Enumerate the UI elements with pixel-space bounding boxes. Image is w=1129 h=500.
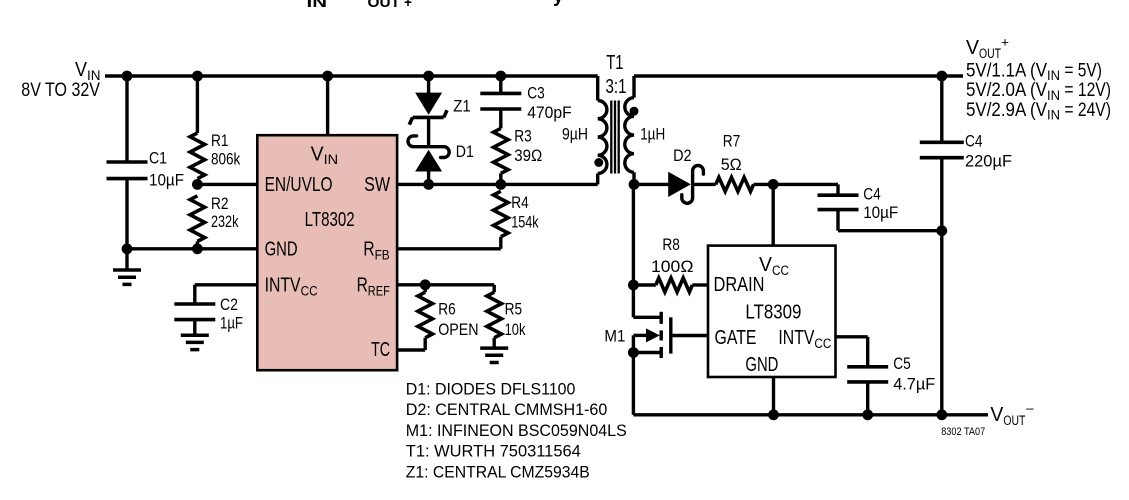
- node dot R3/SW: [495, 179, 506, 190]
- wire D1 bottom stub: [427, 172, 430, 185]
- svg-text:R8: R8: [662, 236, 680, 254]
- wire M1 source: [633, 351, 660, 354]
- svg-text:+: +: [404, 0, 412, 11]
- svg-text:232k: 232k: [211, 213, 239, 231]
- svg-text:D2: CENTRAL CMMSH1-60: D2: CENTRAL CMMSH1-60: [406, 401, 608, 419]
- wire GND rail: [127, 247, 257, 250]
- wire C5 bottom: [866, 382, 869, 415]
- svg-text:154k: 154k: [511, 214, 539, 232]
- node dot VIN pin: [322, 71, 333, 82]
- svg-text:M1: INFINEON BSC059N04LS: M1: INFINEON BSC059N04LS: [406, 422, 627, 440]
- node dot C4out bottom: [936, 409, 947, 420]
- svg-text:VOUT−: VOUT−: [990, 402, 1034, 429]
- svg-text:C4: C4: [863, 186, 881, 204]
- node dot C4out top: [936, 71, 947, 82]
- capacitor C1: [107, 160, 148, 164]
- wire top rail (VIN): [105, 74, 598, 77]
- wire VCC branch: [772, 184, 775, 245]
- ground (C2): [181, 333, 209, 337]
- svg-text:D2: D2: [673, 147, 692, 165]
- wire SW: [397, 183, 598, 186]
- node dot R2 bottom: [192, 243, 203, 254]
- wire R5 top stub: [493, 285, 496, 292]
- svg-text:470pF: 470pF: [527, 104, 572, 122]
- svg-text:SW: SW: [364, 173, 390, 196]
- svg-text:OPEN: OPEN: [438, 321, 478, 339]
- transistor M1 gate bar: [669, 317, 672, 353]
- wire Z1 top stub: [427, 76, 430, 94]
- ground (input): [113, 268, 141, 272]
- svg-text:C3: C3: [527, 85, 545, 103]
- svg-text:TC: TC: [371, 338, 390, 361]
- capacitor C3: [480, 92, 521, 96]
- diode D1 (schottky up): [408, 136, 449, 158]
- zener Z1: [415, 93, 442, 115]
- svg-text:D1: D1: [456, 143, 474, 161]
- op-amp U2 LT8309 box: [708, 246, 836, 377]
- resistor R4: [494, 191, 509, 237]
- wire C3 top stub: [499, 76, 502, 93]
- node dot M1 source: [628, 347, 639, 358]
- op-amp U1 LT8302 box: [257, 135, 397, 370]
- wire C1 top: [125, 76, 128, 162]
- svg-text:3:1: 3:1: [606, 75, 627, 98]
- svg-text:Z1: Z1: [453, 97, 471, 115]
- svg-text:10µF: 10µF: [149, 172, 184, 190]
- capacitor C2: [174, 302, 215, 306]
- wire M1 source down: [632, 335, 635, 414]
- svg-text:IN: IN: [307, 0, 328, 11]
- wire Z1-D1: [427, 117, 430, 148]
- wire D2-R7: [694, 183, 716, 186]
- wire M1 drain: [632, 285, 635, 317]
- wire secondary bottom: [632, 172, 635, 184]
- wire M1 gate: [671, 334, 708, 337]
- wire R8 left stub: [633, 283, 655, 286]
- wire top rail (VOUT): [634, 74, 963, 77]
- svg-text:GATE: GATE: [715, 326, 757, 349]
- svg-text:C2: C2: [220, 296, 238, 314]
- wire R3 bottom: [499, 173, 502, 184]
- title (cropped at top edge): [307, 0, 565, 11]
- wire INTVCC(8309) to C5: [836, 335, 868, 338]
- wire R5 bottom stub: [493, 338, 496, 348]
- wire gnd stub: [125, 249, 128, 270]
- svg-text:R1: R1: [211, 132, 229, 150]
- svg-text:5Ω: 5Ω: [721, 156, 742, 174]
- svg-text:8V TO 32V: 8V TO 32V: [21, 80, 100, 101]
- diode D2 (schottky right): [668, 172, 691, 197]
- wire R2 bottom: [196, 241, 199, 248]
- transformer T1 secondary winding: [625, 98, 634, 173]
- svg-text:GND: GND: [745, 353, 778, 376]
- transformer T1 primary winding: [598, 101, 607, 174]
- svg-text:Z1: CENTRAL CMZ5934B: Z1: CENTRAL CMZ5934B: [406, 464, 590, 482]
- node dot C4b/out: [936, 225, 947, 236]
- wire C4b top stub: [836, 184, 839, 195]
- svg-text:D1: DIODES DFLS1100: D1: DIODES DFLS1100: [406, 380, 576, 398]
- wire INTVCC to C2: [195, 283, 257, 286]
- transformer core: [610, 101, 612, 174]
- wire primary bottom: [596, 174, 599, 185]
- wire RREF: [397, 283, 494, 286]
- svg-text:10k: 10k: [505, 321, 526, 339]
- node dot R6 top: [420, 279, 431, 290]
- wire C4b bottom: [836, 210, 839, 231]
- wire EN/UVLO: [197, 183, 257, 186]
- node dot C5 bottom: [862, 409, 873, 420]
- svg-text:GND: GND: [265, 238, 298, 261]
- transistor M1 channel bars: [660, 312, 663, 324]
- wire C2 gnd stub: [193, 320, 196, 336]
- wire R6 bottom to TC: [424, 338, 427, 350]
- wire VIN pin: [326, 76, 329, 135]
- wire R8 right stub: [692, 283, 708, 286]
- svg-text:T1: T1: [606, 51, 623, 74]
- resistor R5: [487, 292, 502, 338]
- wire secondary to M1: [632, 184, 635, 285]
- wire R4 bottom to RFB: [499, 237, 502, 249]
- svg-text:100Ω: 100Ω: [651, 258, 694, 276]
- node dot R7/VCC: [768, 179, 779, 190]
- svg-text:220µF: 220µF: [965, 153, 1012, 171]
- wire R1 top: [196, 76, 199, 133]
- resistor R2: [190, 196, 205, 242]
- svg-text:LT8309: LT8309: [745, 300, 801, 323]
- resistor R6: [418, 292, 433, 338]
- wire bottom rail (VOUT-): [633, 413, 988, 416]
- svg-text:1µH: 1µH: [640, 126, 665, 144]
- svg-text:OUT: OUT: [368, 0, 401, 11]
- svg-text:10µF: 10µF: [863, 204, 898, 222]
- wire C1 bottom: [125, 179, 128, 249]
- phase dot primary: [594, 158, 603, 167]
- svg-text:R7: R7: [723, 133, 741, 151]
- svg-text:C4: C4: [965, 133, 983, 151]
- resistor R7: [716, 177, 754, 191]
- svg-text:806k: 806k: [211, 150, 241, 168]
- svg-text:y: y: [553, 0, 564, 7]
- svg-text:9µH: 9µH: [562, 126, 588, 144]
- node dot Z1 top: [423, 71, 434, 82]
- svg-text:1µF: 1µF: [220, 314, 243, 332]
- svg-text:R6: R6: [438, 300, 456, 318]
- wire D2 anode: [634, 183, 669, 186]
- svg-text:M1: M1: [604, 328, 625, 346]
- node dot R8 left: [628, 280, 639, 291]
- node dot R1 top: [192, 71, 203, 82]
- node A dot (EN divider): [192, 179, 203, 190]
- svg-text:C5: C5: [893, 355, 911, 373]
- node dot C1 top: [122, 71, 133, 82]
- node dot C1 bottom: [122, 243, 133, 254]
- svg-text:R2: R2: [211, 195, 229, 213]
- svg-text:LT8302: LT8302: [305, 208, 355, 231]
- resistor R1: [190, 133, 205, 179]
- svg-text:VOUT+: VOUT+: [966, 35, 1009, 62]
- svg-text:4.7µF: 4.7µF: [893, 375, 935, 393]
- svg-text:39Ω: 39Ω: [514, 147, 542, 165]
- svg-text:R3: R3: [514, 127, 532, 145]
- capacitor C5: [847, 365, 888, 369]
- svg-text:DRAIN: DRAIN: [714, 273, 765, 296]
- svg-text:R4: R4: [511, 194, 529, 212]
- resistor R8: [656, 278, 693, 292]
- ground (R5): [480, 346, 508, 350]
- node dot GND8309: [768, 409, 779, 420]
- node dot secondary/D2: [629, 179, 640, 190]
- capacitor C4 220uF: [940, 76, 943, 142]
- svg-text:R5: R5: [505, 300, 522, 318]
- wire GND pin stub: [772, 377, 775, 415]
- resistor R3: [494, 128, 509, 173]
- phase dot secondary: [630, 107, 639, 116]
- wire C3-R3: [499, 109, 502, 128]
- node dot C3 top: [495, 71, 506, 82]
- svg-text:T1: WURTH 750311564: T1: WURTH 750311564: [406, 443, 581, 461]
- transistor M1 body arrow: [633, 334, 647, 337]
- capacitor C4 10uF: [818, 193, 859, 197]
- wire R7 right: [754, 183, 838, 186]
- wire primary top: [596, 76, 599, 101]
- svg-text:C1: C1: [149, 150, 167, 168]
- wire R6 top stub: [424, 285, 427, 292]
- wire secondary top: [632, 76, 635, 98]
- svg-text:EN/UVLO: EN/UVLO: [265, 173, 333, 196]
- node dot Z1/SW: [423, 179, 434, 190]
- svg-text:5V/2.9A (VIN = 24V): 5V/2.9A (VIN = 24V): [966, 100, 1111, 124]
- svg-text:8302 TA07: 8302 TA07: [941, 426, 985, 438]
